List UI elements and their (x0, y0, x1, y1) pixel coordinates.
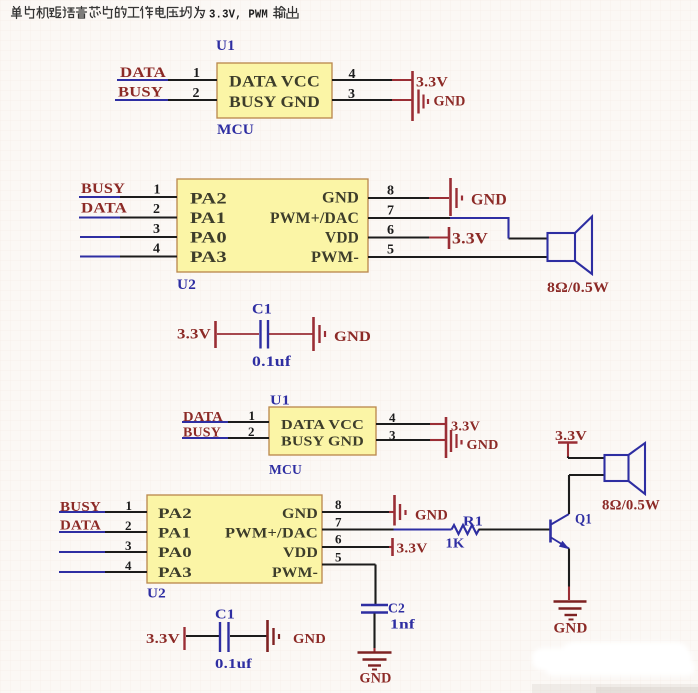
svg-text:3.3V: 3.3V (451, 420, 480, 435)
svg-text:GND: GND (293, 632, 326, 647)
svg-text:C1: C1 (215, 608, 235, 623)
svg-text:GND: GND (434, 94, 466, 110)
svg-text:PA2: PA2 (190, 191, 227, 208)
svg-text:2: 2 (193, 86, 200, 101)
svg-text:DATA: DATA (81, 201, 127, 217)
svg-text:5: 5 (335, 550, 342, 565)
svg-text:GND: GND (471, 192, 507, 209)
svg-text:2: 2 (153, 202, 160, 217)
svg-text:BUSY: BUSY (81, 181, 125, 197)
svg-text:PWM+/DAC: PWM+/DAC (225, 526, 318, 542)
svg-text:PA1: PA1 (158, 526, 191, 542)
svg-text:0.1uf: 0.1uf (252, 354, 292, 370)
svg-text:BUSY: BUSY (118, 85, 163, 101)
svg-text:PWM-: PWM- (272, 565, 318, 581)
svg-text:DATA: DATA (60, 519, 102, 534)
svg-text:DATA VCC: DATA VCC (281, 418, 364, 433)
svg-text:4: 4 (153, 242, 160, 257)
svg-text:GND: GND (282, 506, 318, 522)
svg-text:BUSY: BUSY (60, 500, 101, 515)
svg-text:3.3V: 3.3V (452, 231, 488, 248)
svg-text:C2: C2 (388, 602, 405, 617)
svg-text:2: 2 (125, 518, 132, 533)
svg-text:PWM+/DAC: PWM+/DAC (270, 210, 359, 227)
svg-text:5: 5 (387, 243, 394, 258)
svg-text:DATA: DATA (183, 410, 224, 425)
svg-text:GND: GND (467, 438, 499, 453)
svg-text:U1: U1 (270, 394, 290, 409)
svg-text:6: 6 (335, 532, 342, 547)
svg-text:U1: U1 (216, 38, 235, 54)
svg-text:1: 1 (249, 408, 256, 423)
svg-text:U2: U2 (177, 277, 196, 293)
svg-text:C1: C1 (252, 302, 272, 318)
svg-text:GND: GND (554, 621, 588, 637)
svg-text:8: 8 (387, 184, 394, 199)
svg-text:GND: GND (334, 329, 371, 345)
svg-text:3: 3 (153, 222, 160, 237)
svg-text:PA0: PA0 (190, 230, 227, 247)
svg-text:VDD: VDD (325, 230, 359, 247)
svg-text:GND: GND (415, 508, 448, 524)
svg-text:MCU: MCU (269, 463, 302, 478)
svg-text:7: 7 (387, 204, 394, 219)
svg-text:VDD: VDD (283, 545, 318, 561)
svg-text:8Ω/0.5W: 8Ω/0.5W (602, 498, 660, 514)
svg-text:3.3V: 3.3V (397, 542, 428, 557)
svg-text:3.3V, PWM: 3.3V, PWM (209, 8, 268, 22)
svg-text:8Ω/0.5W: 8Ω/0.5W (547, 280, 609, 296)
svg-text:BUSY GND: BUSY GND (281, 435, 364, 450)
svg-text:PA1: PA1 (190, 210, 226, 227)
svg-text:4: 4 (349, 67, 356, 82)
svg-text:PA3: PA3 (158, 565, 192, 581)
svg-text:DATA VCC: DATA VCC (229, 74, 320, 91)
svg-text:U2: U2 (147, 587, 166, 602)
svg-text:GND: GND (360, 671, 392, 687)
svg-text:BUSY: BUSY (183, 426, 221, 441)
svg-text:8: 8 (335, 497, 342, 512)
svg-text:0.1uf: 0.1uf (215, 657, 252, 672)
svg-text:1: 1 (126, 498, 133, 513)
svg-text:4: 4 (125, 558, 132, 573)
svg-text:1nf: 1nf (390, 618, 415, 633)
svg-text:PA0: PA0 (158, 545, 192, 561)
svg-text:BUSY GND: BUSY GND (229, 94, 320, 111)
svg-text:3.3V: 3.3V (416, 75, 448, 91)
svg-text:Q1: Q1 (575, 512, 592, 528)
svg-text:3: 3 (348, 87, 355, 102)
svg-text:GND: GND (322, 190, 359, 207)
svg-text:PA3: PA3 (190, 249, 227, 266)
svg-text:MCU: MCU (217, 122, 254, 138)
svg-text:2: 2 (248, 424, 255, 439)
svg-text:4: 4 (389, 410, 396, 425)
svg-text:PA2: PA2 (158, 506, 192, 522)
svg-text:3.3V: 3.3V (177, 327, 211, 343)
svg-text:7: 7 (335, 515, 342, 530)
svg-text:1K: 1K (446, 537, 465, 552)
svg-text:3: 3 (125, 538, 132, 553)
svg-text:1: 1 (154, 183, 161, 198)
svg-text:R1: R1 (463, 515, 483, 530)
svg-text:3: 3 (389, 428, 396, 443)
svg-text:3.3V: 3.3V (146, 632, 180, 647)
svg-text:PWM-: PWM- (311, 249, 359, 266)
svg-text:1: 1 (193, 66, 200, 81)
svg-text:DATA: DATA (120, 65, 166, 81)
svg-text:6: 6 (387, 223, 394, 238)
